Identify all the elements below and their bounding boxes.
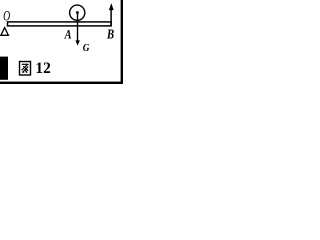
force arrow G head: [75, 40, 80, 45]
background: [0, 0, 124, 86]
pulley axle dot: [76, 11, 79, 14]
svg-text:G: G: [83, 43, 90, 55]
right frame border: [121, 0, 123, 84]
force arrow F shaft at B: [110, 7, 112, 27]
pulley circle: [70, 5, 85, 20]
force arrow G shaft: [77, 13, 79, 42]
black block bottom-left: [0, 57, 8, 80]
lever beam: [8, 22, 112, 26]
svg-text:B: B: [106, 26, 114, 41]
caption character 图 (drawn): [20, 62, 31, 76]
fulcrum triangle: [1, 28, 8, 36]
force arrow F head: [109, 3, 114, 10]
svg-text:O: O: [3, 8, 10, 25]
svg-text:A: A: [64, 27, 72, 41]
bottom frame border: [0, 82, 123, 84]
svg-text:12: 12: [35, 60, 51, 77]
